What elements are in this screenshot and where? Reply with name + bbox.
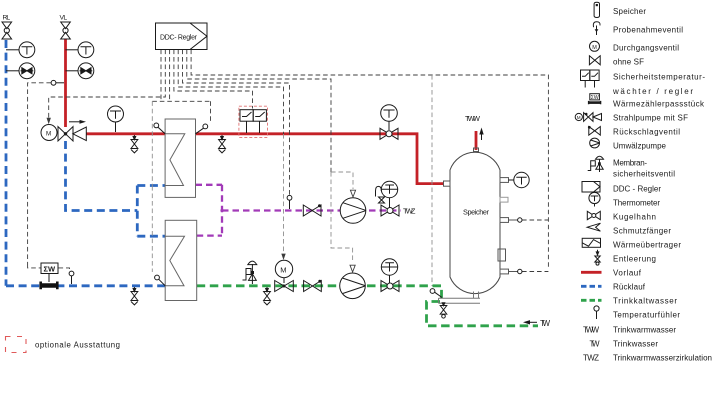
svg-text:Trinkwasser: Trinkwasser [613, 340, 658, 349]
svg-text:Sicherheitstemperatur-: Sicherheitstemperatur- [613, 73, 705, 82]
legend icon Probenahmeventil [593, 22, 600, 35]
arrow ddc to TWZ pump [350, 190, 355, 197]
drain valve on green line [264, 287, 271, 305]
svg-text:Trinkwarmwasser: Trinkwarmwasser [613, 326, 676, 335]
svg-text:TW: TW [540, 319, 550, 328]
wire blue riser x137 [136, 186, 139, 237]
drain valve tank bottom [440, 303, 447, 318]
heat meter passage piece [40, 282, 58, 290]
legend icon Durchgangsventil [590, 41, 600, 51]
tank right sensor nipple lower [500, 269, 518, 274]
wire ddc drop 2 left to jet-pump motor [49, 50, 166, 121]
check valve on RL [6, 63, 35, 79]
wire heat meter to sensor link [59, 268, 70, 271]
wire ddc drop 3 to exchanger sensor box [169, 50, 171, 102]
svg-text:M: M [280, 265, 286, 274]
tank right sensor nipple upper [500, 218, 518, 223]
svg-text:DDC - Regler: DDC - Regler [613, 185, 661, 194]
drain valve on blue bottom [131, 287, 138, 305]
svg-text:Membran-: Membran- [613, 159, 647, 168]
wire sensor box right leg [210, 101, 212, 121]
legend icon check valve [589, 127, 601, 136]
arrow ddc to green motor valve [281, 254, 285, 260]
wire sensor box top [152, 100, 210, 102]
legend icon DDC [582, 182, 600, 193]
valve with thermometer TWZ [381, 181, 399, 216]
valve RL [2, 22, 12, 39]
wire red TWW outlet on tank top [475, 131, 478, 150]
wire ddc drop 6 to TWZ sensor [183, 50, 290, 196]
svg-text:VL: VL [60, 15, 68, 22]
temperature sensor TWZ [287, 195, 292, 209]
legend icon heat exchanger [582, 238, 600, 247]
sensor exchanger1 right [196, 124, 208, 134]
wire purple riser x222 [221, 185, 223, 236]
motor valve on green line [275, 260, 294, 291]
svg-text:Rücklauf: Rücklauf [613, 283, 646, 292]
svg-text:M: M [577, 115, 581, 120]
svg-text:optionale Ausstattung: optionale Ausstattung [35, 341, 120, 350]
svg-text:M: M [592, 45, 597, 51]
wire purple stub exchanger1 right [196, 184, 223, 186]
shut-off valve with hand wheel [380, 128, 398, 139]
wire ddc drop 1 to exchanger sensor box [160, 50, 162, 102]
tank top nipple [474, 148, 479, 152]
legend sample Vorlauf [581, 271, 602, 274]
tank heating flange [498, 249, 506, 261]
thermometer on VL [66, 42, 94, 58]
arrow TWW up [481, 132, 483, 140]
wire green TW run from exchanger2 [197, 286, 538, 326]
legend icon membrane safety valve [588, 156, 604, 172]
svg-text:Vorlauf: Vorlauf [613, 269, 642, 278]
ball valve TWZ [303, 205, 321, 216]
circulation pump TWZ [340, 198, 366, 224]
svg-text:TWZ: TWZ [403, 207, 416, 216]
flow arrow [69, 121, 81, 123]
check valve on VL [66, 63, 94, 79]
ball valve on green line [304, 281, 322, 292]
sensor exchanger1 left [154, 123, 165, 134]
svg-text:Probenahmeventil: Probenahmeventil [613, 26, 683, 35]
svg-text:Durchgangsventil: Durchgangsventil [613, 44, 679, 53]
wire blue bottom run to exchanger 2 [6, 284, 165, 287]
DDC controller box [156, 23, 208, 50]
sampling valve TWZ [376, 186, 385, 203]
wire tank sensor link lower [522, 271, 548, 273]
svg-text:ΣW: ΣW [44, 265, 57, 274]
legend sample Trinkkaltwasser [581, 299, 602, 302]
heat meter box [41, 263, 58, 282]
wire purple stub exchanger2 right [197, 234, 222, 236]
svg-text:ΣW: ΣW [591, 95, 599, 101]
svg-text:sicherheitsventil: sicherheitsventil [613, 170, 675, 179]
svg-text:M: M [46, 130, 51, 137]
svg-text:wächter / regler: wächter / regler [612, 87, 693, 96]
drain valve on red main left [131, 135, 138, 153]
valve with thermometer on green line [381, 259, 399, 292]
svg-text:Kugelhahn: Kugelhahn [613, 213, 656, 222]
arrow ddc to jet pump motor [47, 118, 51, 124]
safety temperature watcher TR [240, 110, 253, 133]
legend icon strainer [587, 223, 600, 231]
heat exchanger 1 [165, 119, 195, 197]
drain valve on red main right [219, 135, 226, 153]
heat exchanger 2 [165, 220, 197, 300]
svg-text:TWZ: TWZ [583, 354, 599, 363]
wire sensor box left leg [151, 101, 153, 272]
legend icon drain [595, 250, 600, 265]
tank right stub [500, 197, 508, 202]
svg-text:Rückschlagventil: Rückschlagventil [613, 128, 680, 137]
wire TW arrow [527, 321, 537, 323]
svg-text:Wärmezählerpassstück: Wärmezählerpassstück [613, 100, 705, 109]
thermometer [381, 105, 398, 130]
wire ddc drop 8 to storage sensors [191, 50, 548, 269]
thermometer on tank [509, 172, 530, 187]
tank left inlet nipple [444, 181, 451, 186]
wire blue stub to exchanger1 bottom left [137, 184, 165, 187]
legend icon thermometer [589, 192, 600, 206]
thermometer on RL [6, 42, 35, 58]
storage tank body [450, 152, 500, 293]
sensor tank bottom [430, 289, 442, 298]
legend icon Speicher [594, 2, 599, 17]
svg-text:TW: TW [590, 340, 600, 349]
valve VL [61, 22, 71, 39]
jet pump with motor [41, 125, 86, 142]
svg-text:Strahlpumpe mit SF: Strahlpumpe mit SF [613, 114, 688, 123]
legend icon ohne SF valve [589, 56, 600, 65]
legend sample Ruecklauf [581, 285, 602, 288]
svg-text:TWW: TWW [465, 114, 481, 123]
legend icon ball valve [587, 211, 600, 219]
svg-text:Trinkkaltwasser: Trinkkaltwasser [613, 297, 677, 306]
safety temperature watcher TW [253, 110, 266, 133]
wire red main run left of exchanger1 [86, 132, 165, 135]
temperature sensor on VL [51, 80, 64, 85]
wire VL sensor to heat meter [28, 83, 51, 264]
wire RL blue riser [5, 40, 8, 286]
thermometer on red main [108, 106, 124, 132]
wire blue stub to exchanger2 top left [137, 235, 165, 238]
svg-text:Wärmeübertrager: Wärmeübertrager [613, 241, 681, 250]
sensor exchanger2 left [155, 275, 166, 286]
tank bottom outlet pipe [439, 292, 481, 304]
wire tank sensor link upper [522, 219, 548, 221]
svg-text:Temperaturfühler: Temperaturfühler [613, 311, 680, 320]
legend icon heat meter passage [588, 94, 601, 105]
wire purple TWZ run [222, 209, 401, 211]
tank right nipple thermometer [500, 178, 509, 183]
svg-text:TWW: TWW [583, 326, 599, 335]
svg-text:Speicher: Speicher [613, 7, 646, 16]
arrow ddc to TW pump [350, 265, 355, 272]
optional equipment box [6, 337, 27, 353]
node purple tee [220, 209, 223, 212]
wire VL red riser [64, 39, 67, 127]
membrane safety valve [243, 261, 257, 284]
legend icon jet pump [575, 113, 601, 122]
wire red main run right of exchanger1 to tank [196, 134, 445, 184]
node valve center [64, 132, 67, 135]
optional boundary box [239, 106, 268, 137]
svg-text:Umwälzpumpe: Umwälzpumpe [613, 142, 667, 151]
wire ddc drop 4 to safety temperature devices [174, 50, 253, 109]
wire ddc drop 5 to green-line motor valve [178, 50, 283, 135]
svg-text:DDC- Regler: DDC- Regler [160, 35, 198, 42]
svg-text:Entleerung: Entleerung [613, 255, 656, 264]
wire ddc branch to tank bottom sensor [431, 75, 433, 286]
wire blue from 3-way valve down and to riser x137 [66, 141, 138, 211]
wire ddc branch to TWZ pump [331, 172, 353, 189]
wire ddc drop 7 to pumps [187, 50, 331, 173]
temperature sensor at heat meter [69, 271, 74, 284]
legend icon safety temperature devices [581, 70, 600, 88]
svg-text:Thermometer: Thermometer [613, 199, 660, 208]
svg-text:Speicher: Speicher [463, 208, 490, 217]
svg-text:ohne SF: ohne SF [613, 58, 644, 67]
svg-text:Trinkwarmwasserzirkulation: Trinkwarmwasserzirkulation [613, 354, 712, 363]
circulation pump on green line [340, 273, 366, 299]
legend icon circulation pump [590, 138, 600, 148]
svg-text:RL: RL [3, 15, 11, 22]
legend icon temperature sensor [594, 306, 599, 319]
svg-text:Schmutzfänger: Schmutzfänger [613, 227, 671, 236]
